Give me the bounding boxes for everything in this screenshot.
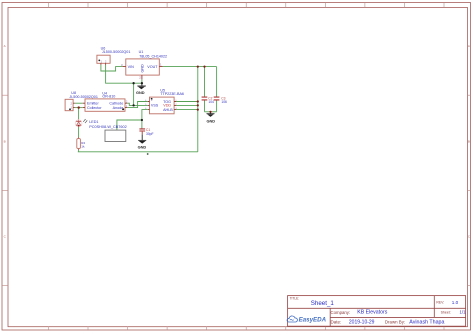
svg-text:Anode: Anode xyxy=(113,106,124,110)
capacitor C1 xyxy=(139,128,153,136)
wire C2 branch vertical xyxy=(204,67,206,112)
ground under U1 xyxy=(136,83,146,95)
component U8 JL500-50002Q01 xyxy=(65,91,98,111)
wire C1 bus to touch pad xyxy=(117,120,142,130)
svg-text:EasyEDA: EasyEDA xyxy=(299,317,327,324)
junction GND net / U1 pin 2 xyxy=(141,82,143,84)
svg-text:104: 104 xyxy=(208,100,214,104)
component U5 TTP223E-BA6 xyxy=(145,88,184,114)
wire C3 branch vertical xyxy=(216,67,218,112)
wire U5 pin3 down to C1 xyxy=(142,110,148,129)
svg-text:LED1: LED1 xyxy=(89,120,98,124)
svg-text:30pF: 30pF xyxy=(146,132,154,136)
ground under C2 C3 xyxy=(206,112,215,124)
svg-text:GND: GND xyxy=(136,90,145,95)
component U4 OR-810 optocoupler xyxy=(83,92,128,112)
svg-text:VSS: VSS xyxy=(151,103,159,107)
junction C1 node xyxy=(141,119,143,121)
capacitor C2 xyxy=(202,97,214,105)
capacitor C3 xyxy=(214,97,227,105)
wire bottom bus xyxy=(78,151,198,153)
svg-text:Date:: Date: xyxy=(331,319,342,324)
wire VOUT to top power bus xyxy=(163,66,217,68)
ground under C1 xyxy=(138,135,147,150)
svg-text:Sheet_1: Sheet_1 xyxy=(311,300,335,307)
wire U4 anode to U5 pin1 xyxy=(127,102,148,108)
component U1 78L05_CH14022 regulator xyxy=(121,50,167,79)
net stub mark on bottom bus xyxy=(147,153,149,155)
junction power bus / rail xyxy=(197,66,199,68)
svg-text:KB Elevators: KB Elevators xyxy=(357,310,387,316)
svg-text:B: B xyxy=(4,140,6,144)
svg-text:GND: GND xyxy=(141,64,145,73)
svg-text:OR-810: OR-810 xyxy=(102,95,115,99)
wire U5 TOG to rail xyxy=(176,101,198,103)
junction GND net / VSS drop xyxy=(132,82,134,84)
svg-text:Company:: Company: xyxy=(331,310,351,315)
svg-text:Sheet:: Sheet: xyxy=(441,311,451,315)
cursor dot xyxy=(122,108,124,110)
svg-text:Drawn By:: Drawn By: xyxy=(385,319,405,324)
junction LED branch node xyxy=(78,106,80,108)
EasyEDA logo xyxy=(287,316,327,324)
svg-text:B: B xyxy=(468,140,470,144)
svg-text:JL500-50002Q01: JL500-50002Q01 xyxy=(69,95,98,99)
svg-text:1.0: 1.0 xyxy=(452,300,459,305)
wire right rail down to bottom bus xyxy=(197,67,199,152)
junction VDD / rail xyxy=(197,104,199,106)
junction power bus / C2 branch xyxy=(203,66,205,68)
wire GND net down to VSS row xyxy=(133,83,135,105)
wire U1 GND pin to net xyxy=(141,79,143,83)
svg-text:78L05_CH14022: 78L05_CH14022 xyxy=(139,54,167,58)
border row labels xyxy=(4,44,471,239)
touch pad outline xyxy=(105,130,126,141)
svg-text:VOUT: VOUT xyxy=(147,65,158,69)
junction VSS row node xyxy=(132,104,134,106)
svg-text:TTP223E-BA6: TTP223E-BA6 xyxy=(160,92,184,96)
resistor R2 xyxy=(77,137,86,149)
svg-text:1/1: 1/1 xyxy=(460,310,467,315)
junction C2-C3 join / ground xyxy=(209,111,211,113)
svg-text:106: 106 xyxy=(221,100,227,104)
wire C2-C3 bottom join xyxy=(205,111,217,113)
wire LED / R2 branch xyxy=(78,108,80,152)
wire U5 AHLB to rail xyxy=(176,109,198,111)
svg-text:A: A xyxy=(468,44,470,48)
svg-text:Collector: Collector xyxy=(87,106,102,110)
junction TOG / rail xyxy=(197,100,199,102)
svg-text:PC0SH08-W_CB7602: PC0SH08-W_CB7602 xyxy=(89,125,127,129)
svg-text:TITLE:: TITLE: xyxy=(290,297,300,301)
svg-text:A: A xyxy=(4,44,6,48)
wire U8 to U4 collector xyxy=(75,107,83,109)
wire U6 pin1 to U1 VIN xyxy=(101,65,123,71)
wire U4 cathode to U5 VSS xyxy=(127,103,148,105)
svg-text:1k: 1k xyxy=(81,145,85,149)
svg-text:GND: GND xyxy=(138,145,147,150)
svg-text:2019-10-29: 2019-10-29 xyxy=(349,319,375,325)
svg-text:VIN: VIN xyxy=(128,65,134,69)
wire U5 VDD to rail xyxy=(176,104,198,106)
wire U8 to U4 emitter xyxy=(75,102,83,104)
svg-text:Avinash Thapa: Avinash Thapa xyxy=(409,319,444,325)
svg-text:JL500-50002Q01: JL500-50002Q01 xyxy=(102,50,130,54)
wire U6 pin2 to GND net xyxy=(106,65,142,84)
component U6 JL500-50002Q01 xyxy=(97,46,130,65)
junction AHLB / rail xyxy=(197,109,199,111)
LED1 xyxy=(75,119,127,129)
svg-text:AHLB: AHLB xyxy=(163,108,173,112)
svg-text:GND: GND xyxy=(206,119,215,124)
svg-text:REV:: REV: xyxy=(436,301,444,305)
